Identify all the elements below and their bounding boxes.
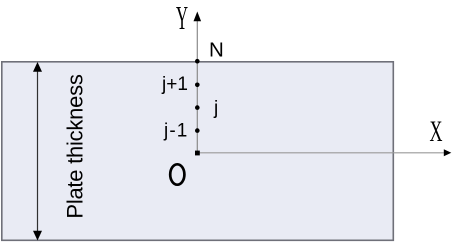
svg-text:Y: Y [176,0,188,37]
svg-text:Plate thickness: Plate thickness [62,74,87,218]
svg-text:X: X [430,115,443,148]
svg-text:j-1: j-1 [163,121,188,142]
svg-text:j+1: j+1 [161,74,188,95]
svg-text:j: j [213,98,218,119]
svg-text:N: N [209,38,224,61]
